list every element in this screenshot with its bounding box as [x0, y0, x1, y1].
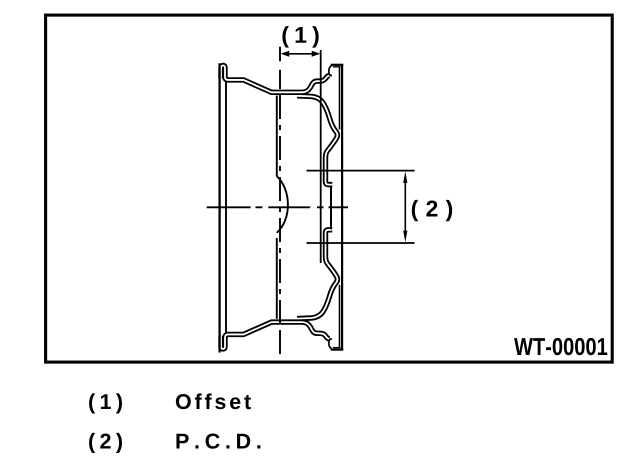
vertical centerline (dash-dot): [279, 47, 281, 354]
label (1) above dimension: [282, 26, 318, 47]
legend item 1 marker: [89, 393, 122, 413]
legend item 2 text P.C.D.: [176, 433, 260, 448]
mounting face / dimension 1 extension line: [320, 50, 322, 263]
horizontal centerline (dash-dot): [207, 206, 348, 208]
left flange outer edge line: [218, 63, 220, 352]
left bead seat edge line: [225, 81, 227, 334]
P.C.D. lower extension line: [307, 242, 415, 244]
rim cross-section lower half (mirrored): [221, 230, 343, 350]
P.C.D. upper extension line: [307, 170, 415, 172]
label (2) right of dimension: [412, 200, 452, 221]
hub bore wall line: [330, 186, 332, 230]
rim cross-section upper half: [221, 65, 343, 185]
legend item 1 text Offset: [176, 393, 251, 409]
dimension 2 arrow line: [403, 171, 407, 242]
hub bore arc: [277, 176, 288, 233]
figure border frame: [46, 15, 613, 362]
right rim edge silhouette line: [341, 64, 343, 351]
figure code WT-00001: [514, 338, 607, 355]
dimension 1 arrow line: [281, 51, 321, 57]
legend item 2 marker: [89, 433, 122, 453]
